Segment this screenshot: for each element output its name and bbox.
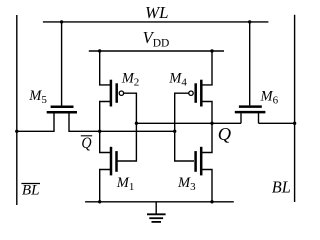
transistor M1 channel bar [110, 147, 113, 176]
ground symbol [147, 202, 166, 222]
wire M2 source to VDD [100, 51, 111, 85]
wire ground rail [85, 201, 234, 203]
wire M3 source to ground [201, 170, 212, 202]
wire BLbar bit line (left vertical) [16, 15, 18, 205]
wire M6 source stub to Q rail [240, 113, 242, 123]
transistor M4 gate bar [194, 83, 197, 103]
junction dot BL / M6 [293, 122, 296, 125]
wire VDD rail [89, 50, 224, 52]
wire M5 drain to Qbar rail [69, 113, 100, 131]
wire node Q rail right section to BL [259, 122, 295, 124]
transistor M2 PMOS gate bubble [119, 91, 123, 95]
junction dot VDD / M2 source [98, 49, 101, 52]
junction dot Q / M1 M2 gates [135, 122, 138, 125]
transistor M6 channel bar [235, 111, 266, 114]
wire M6 gate to WL [249, 22, 251, 106]
wire M1 source to ground [100, 170, 111, 202]
wire node Qbar rail [100, 130, 175, 132]
wire BL bit line (right vertical) [294, 15, 296, 202]
transistor M1 gate bar [115, 151, 118, 172]
junction dot VDD / M4 source [210, 49, 213, 52]
transistor M6 gate bar [239, 105, 262, 108]
junction dot BLbar / M5 [15, 130, 18, 133]
junction dot Qbar / inverter drains [98, 130, 101, 133]
transistor M2 gate bar [115, 83, 118, 103]
wire M5 source to BLbar [17, 113, 54, 131]
svg-text:Q: Q [218, 124, 232, 144]
svg-text:WL: WL [145, 3, 169, 22]
junction dot ground / M3 source [210, 200, 213, 203]
wire M5 gate to WL [61, 22, 63, 106]
wire WL word line (top horizontal) [43, 21, 269, 23]
junction dot Qbar / M3 M4 gates [173, 130, 176, 133]
wire M6 drain stub [258, 113, 260, 123]
svg-text:Q: Q [81, 135, 92, 152]
junction dot WL / M5 gate [60, 20, 63, 23]
transistor M5 channel bar [47, 111, 77, 114]
wire M2 drain to Qbar [100, 102, 111, 132]
junction dot Q / inverter drains [210, 122, 213, 125]
transistor M3 channel bar [200, 147, 203, 176]
wire M3 drain to Q [201, 123, 212, 152]
wire M4 drain to Q [201, 102, 212, 124]
transistor M4 channel bar [200, 80, 203, 107]
junction dot WL / M6 gate [248, 20, 251, 23]
wire node Q rail left section [136, 122, 241, 124]
junction dot ground / M1 source [98, 200, 101, 203]
wire M2 gate / M1 gate to node Q (cross coupling) [118, 93, 137, 161]
transistor M2 channel bar [110, 80, 113, 107]
svg-text:BL: BL [272, 178, 291, 197]
transistor M5 gate bar [51, 106, 74, 109]
transistor M4 PMOS gate bubble [189, 91, 193, 95]
wire M1 drain to Qbar [100, 131, 111, 152]
wire M4 gate / M3 gate to node Qbar (cross coupling) [175, 93, 194, 161]
transistor M3 gate bar [194, 151, 197, 172]
svg-text:BL: BL [22, 182, 40, 199]
wire M4 source to VDD [201, 51, 212, 85]
